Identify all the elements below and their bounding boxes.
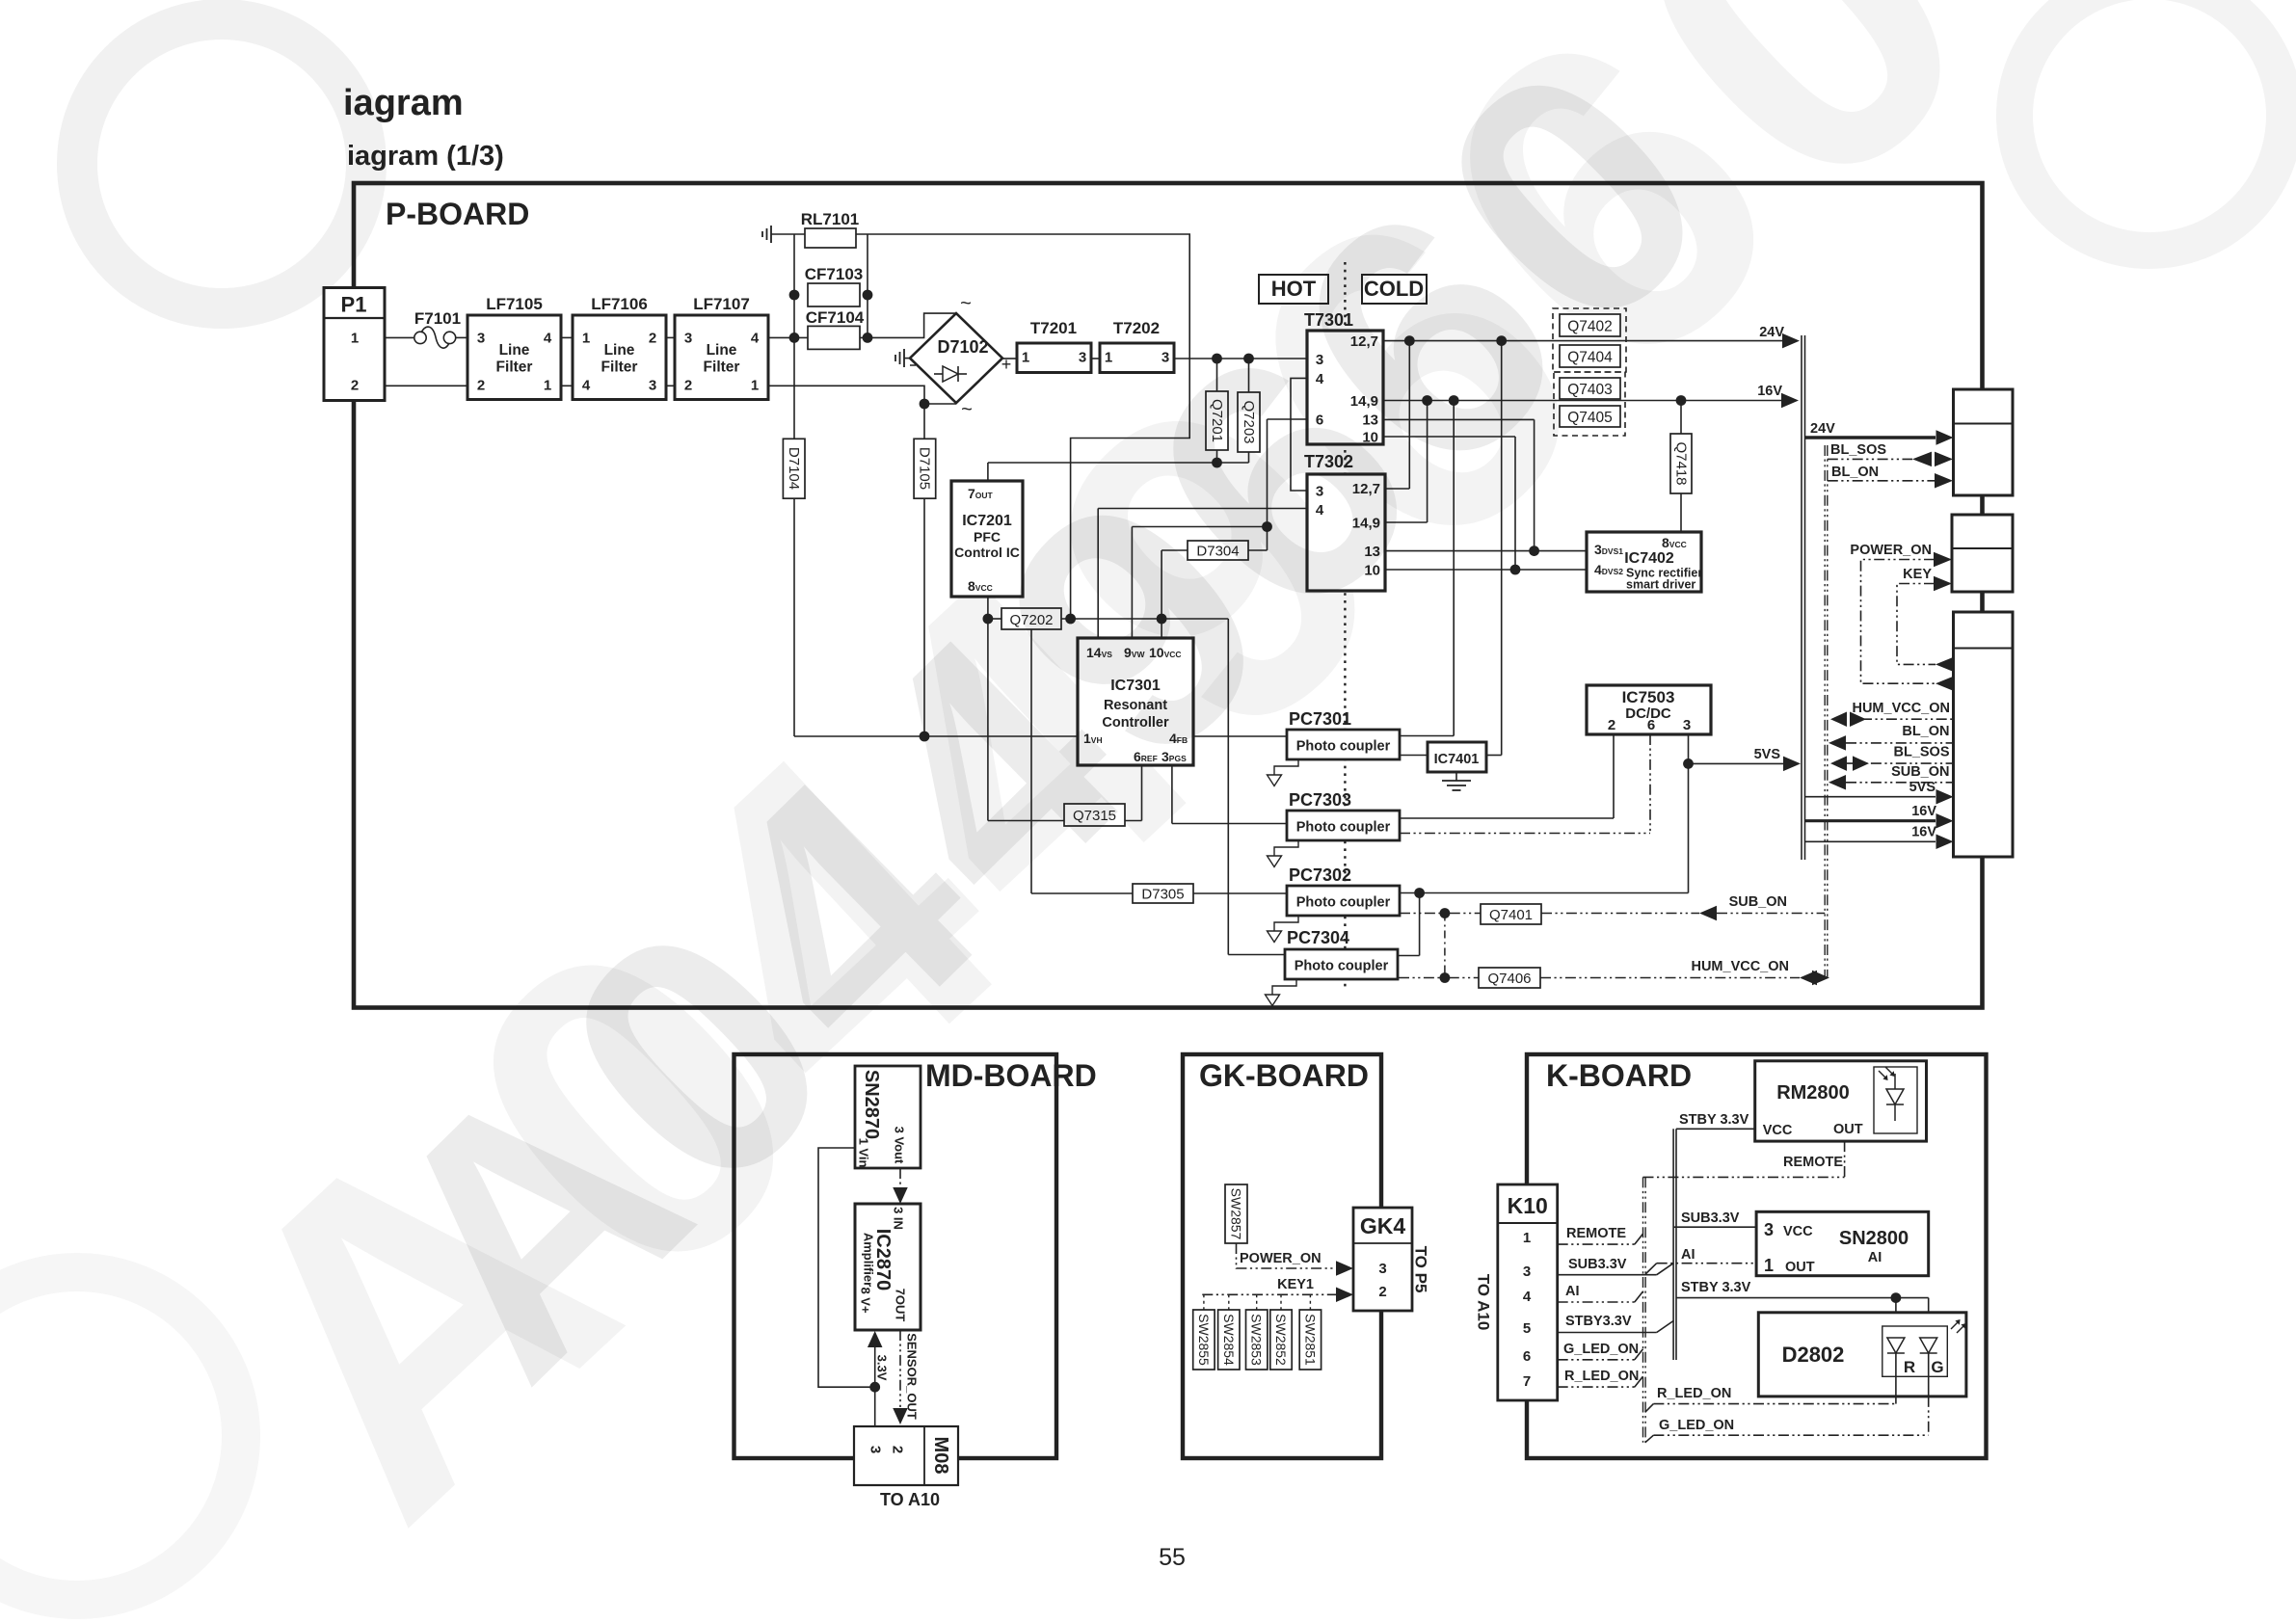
svg-text:TO A10: TO A10	[1475, 1274, 1493, 1331]
svg-text:Line: Line	[499, 342, 530, 359]
svg-text:STBY 3.3V: STBY 3.3V	[1681, 1280, 1751, 1295]
svg-text:~: ~	[961, 399, 973, 420]
svg-text:Amplifier: Amplifier	[862, 1233, 876, 1287]
svg-text:VCC: VCC	[1763, 1123, 1793, 1138]
svg-text:P-BOARD: P-BOARD	[386, 197, 529, 231]
svg-text:OUT: OUT	[1785, 1260, 1815, 1275]
svg-text:SW2855: SW2855	[1196, 1314, 1212, 1366]
svg-text:POWER_ON: POWER_ON	[1240, 1251, 1322, 1266]
svg-text:HUM_VCC_ON: HUM_VCC_ON	[1852, 701, 1950, 716]
svg-text:1: 1	[582, 331, 590, 347]
svg-text:1: 1	[1105, 350, 1112, 366]
svg-text:GK-BOARD: GK-BOARD	[1199, 1058, 1369, 1093]
svg-text:Filter: Filter	[704, 359, 740, 376]
svg-text:HUM_VCC_ON: HUM_VCC_ON	[1691, 959, 1789, 974]
svg-text:IC7503: IC7503	[1622, 688, 1675, 706]
svg-text:Photo coupler: Photo coupler	[1296, 739, 1391, 755]
svg-text:SW2854: SW2854	[1221, 1314, 1237, 1366]
svg-text:KEY: KEY	[1903, 567, 1932, 582]
svg-text:D7104: D7104	[786, 447, 802, 490]
svg-text:iagram (1/3): iagram (1/3)	[347, 141, 504, 172]
svg-text:G_LED_ON: G_LED_ON	[1659, 1418, 1734, 1433]
svg-text:REMOTE: REMOTE	[1783, 1155, 1843, 1170]
svg-text:OUT: OUT	[1833, 1122, 1863, 1137]
svg-text:16V: 16V	[1911, 825, 1936, 840]
svg-text:SUB_ON: SUB_ON	[1891, 764, 1949, 780]
svg-text:55: 55	[1159, 1544, 1186, 1571]
svg-text:2: 2	[649, 331, 656, 347]
svg-text:5: 5	[1523, 1320, 1531, 1337]
svg-text:1: 1	[544, 378, 551, 394]
svg-text:2: 2	[1378, 1284, 1386, 1300]
svg-text:3: 3	[649, 378, 656, 394]
svg-text:D2802: D2802	[1782, 1343, 1845, 1367]
svg-text:2: 2	[684, 378, 692, 394]
svg-text:TO A10: TO A10	[880, 1490, 940, 1509]
svg-text:5VS: 5VS	[1909, 780, 1936, 795]
svg-text:1: 1	[1523, 1230, 1531, 1246]
svg-text:K-BOARD: K-BOARD	[1546, 1058, 1692, 1093]
svg-text:BL_SOS: BL_SOS	[1893, 745, 1949, 760]
svg-text:STBY 3.3V: STBY 3.3V	[1679, 1112, 1749, 1128]
svg-text:5VS: 5VS	[1754, 747, 1781, 762]
svg-text:3 IN: 3 IN	[892, 1207, 906, 1230]
svg-text:6: 6	[1523, 1348, 1531, 1365]
svg-text:CF7103: CF7103	[805, 265, 863, 283]
svg-text:4: 4	[1523, 1289, 1532, 1305]
svg-text:AI: AI	[1681, 1247, 1695, 1263]
svg-text:R_LED_ON: R_LED_ON	[1657, 1386, 1731, 1401]
svg-text:PC7302: PC7302	[1289, 865, 1351, 885]
svg-text:24V: 24V	[1810, 421, 1835, 437]
svg-text:~: ~	[960, 293, 972, 314]
svg-text:D7105: D7105	[917, 447, 933, 490]
svg-text:SUB3.3V: SUB3.3V	[1568, 1257, 1627, 1272]
svg-text:1: 1	[751, 378, 759, 394]
svg-text:3.3V: 3.3V	[875, 1355, 890, 1381]
svg-text:2: 2	[890, 1446, 906, 1453]
svg-text:Q7406: Q7406	[1487, 971, 1531, 987]
svg-text:RL7101: RL7101	[801, 210, 859, 228]
svg-text:POWER_ON: POWER_ON	[1850, 543, 1932, 558]
svg-text:REMOTE: REMOTE	[1566, 1226, 1626, 1241]
svg-text:IC7401: IC7401	[1434, 752, 1480, 767]
svg-text:VCC: VCC	[1783, 1224, 1813, 1239]
svg-text:R_LED_ON: R_LED_ON	[1564, 1369, 1639, 1384]
svg-text:Filter: Filter	[601, 359, 638, 376]
svg-text:SW2851: SW2851	[1302, 1314, 1318, 1366]
svg-text:PC7304: PC7304	[1287, 928, 1349, 947]
svg-text:Line: Line	[707, 342, 737, 359]
svg-text:Photo coupler: Photo coupler	[1296, 895, 1391, 911]
svg-text:Q7401: Q7401	[1489, 907, 1533, 923]
svg-text:SUB3.3V: SUB3.3V	[1681, 1211, 1740, 1226]
svg-text:4: 4	[544, 331, 552, 347]
svg-text:D7102: D7102	[937, 337, 988, 357]
svg-text:T7202: T7202	[1113, 319, 1160, 337]
svg-text:2: 2	[351, 378, 359, 394]
svg-text:+: +	[1001, 355, 1012, 374]
svg-text:2: 2	[477, 378, 485, 394]
svg-text:Photo coupler: Photo coupler	[1295, 959, 1389, 974]
svg-text:SUB_ON: SUB_ON	[1729, 894, 1787, 910]
svg-text:KEY1: KEY1	[1277, 1277, 1314, 1292]
svg-text:16V: 16V	[1911, 804, 1936, 819]
svg-text:BL_SOS: BL_SOS	[1830, 442, 1886, 458]
svg-text:1: 1	[1022, 350, 1029, 366]
svg-text:G_LED_ON: G_LED_ON	[1563, 1342, 1639, 1357]
svg-text:3: 3	[1523, 1264, 1531, 1280]
svg-text:T7201: T7201	[1030, 319, 1077, 337]
svg-text:AI: AI	[1565, 1284, 1580, 1299]
svg-text:1: 1	[1764, 1256, 1774, 1275]
svg-text:STBY3.3V: STBY3.3V	[1565, 1314, 1632, 1329]
svg-text:D7305: D7305	[1141, 887, 1184, 903]
svg-text:8 V+: 8 V+	[859, 1287, 873, 1314]
svg-text:SW2853: SW2853	[1249, 1314, 1265, 1366]
svg-text:F7101: F7101	[414, 309, 461, 328]
svg-text:SENSOR_OUT: SENSOR_OUT	[905, 1333, 920, 1420]
svg-text:16V: 16V	[1757, 384, 1782, 399]
svg-text:smart driver: smart driver	[1626, 578, 1695, 592]
svg-text:4: 4	[751, 331, 760, 347]
svg-text:4: 4	[582, 378, 591, 394]
svg-text:P1: P1	[341, 293, 367, 317]
svg-text:iagram: iagram	[343, 83, 464, 123]
svg-text:BL_ON: BL_ON	[1831, 465, 1879, 480]
svg-text:Q7418: Q7418	[1673, 441, 1690, 485]
svg-text:R: R	[1904, 1358, 1915, 1376]
svg-text:M08: M08	[930, 1437, 951, 1475]
svg-text:BL_ON: BL_ON	[1902, 724, 1949, 739]
svg-text:3: 3	[1764, 1220, 1774, 1239]
svg-text:7: 7	[1523, 1373, 1531, 1390]
svg-text:LF7107: LF7107	[693, 295, 750, 313]
svg-text:GK4: GK4	[1360, 1213, 1406, 1238]
svg-text:3: 3	[1079, 350, 1086, 366]
svg-text:CF7104: CF7104	[806, 308, 865, 327]
svg-text:Filter: Filter	[496, 359, 533, 376]
svg-text:TO P5: TO P5	[1412, 1246, 1430, 1293]
svg-text:LF7106: LF7106	[591, 295, 648, 313]
svg-text:7OUT: 7OUT	[894, 1289, 908, 1322]
svg-text:LF7105: LF7105	[486, 295, 543, 313]
svg-text:SN2800: SN2800	[1839, 1228, 1909, 1249]
svg-text:24V: 24V	[1759, 325, 1784, 340]
svg-text:Photo coupler: Photo coupler	[1296, 820, 1391, 836]
svg-text:2: 2	[1608, 717, 1615, 733]
svg-text:RM2800: RM2800	[1776, 1082, 1850, 1104]
svg-text:3: 3	[868, 1446, 884, 1453]
svg-text:PC7303: PC7303	[1289, 790, 1351, 810]
svg-text:3: 3	[477, 331, 485, 347]
svg-text:IC7402: IC7402	[1624, 550, 1674, 567]
svg-text:1: 1	[351, 331, 359, 347]
svg-text:6: 6	[1647, 717, 1655, 733]
svg-text:3: 3	[1683, 717, 1691, 733]
svg-text:3: 3	[1378, 1261, 1386, 1277]
svg-text:AI: AI	[1868, 1250, 1882, 1265]
svg-text:Line: Line	[604, 342, 635, 359]
svg-text:3: 3	[684, 331, 692, 347]
svg-text:SW2857: SW2857	[1229, 1188, 1244, 1240]
svg-text:SW2852: SW2852	[1273, 1314, 1289, 1366]
svg-text:G: G	[1931, 1358, 1943, 1376]
svg-text:K10: K10	[1508, 1193, 1548, 1218]
